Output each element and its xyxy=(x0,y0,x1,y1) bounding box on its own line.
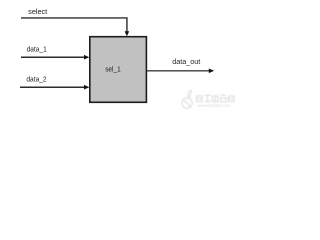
svg-text:data_out: data_out xyxy=(172,59,200,66)
arrowhead select xyxy=(125,31,130,36)
watermark logo circle xyxy=(182,91,192,109)
arrowhead data_out xyxy=(209,69,214,74)
wire select (horizontal then down) xyxy=(21,18,127,32)
svg-text:www.elecfans.com: www.elecfans.com xyxy=(198,103,231,108)
arrowhead data_2 xyxy=(84,85,89,90)
wire data_out xyxy=(147,70,209,72)
svg-text:data_1: data_1 xyxy=(27,46,47,53)
block sel_1 xyxy=(90,37,147,103)
svg-text:sel_1: sel_1 xyxy=(105,67,121,74)
watermark brand text xyxy=(197,95,235,102)
wire data_2 xyxy=(20,86,84,88)
svg-text:select: select xyxy=(28,9,47,16)
wire data_1 xyxy=(21,56,84,58)
svg-text:data_2: data_2 xyxy=(26,76,46,83)
arrowhead data_1 xyxy=(84,55,89,60)
